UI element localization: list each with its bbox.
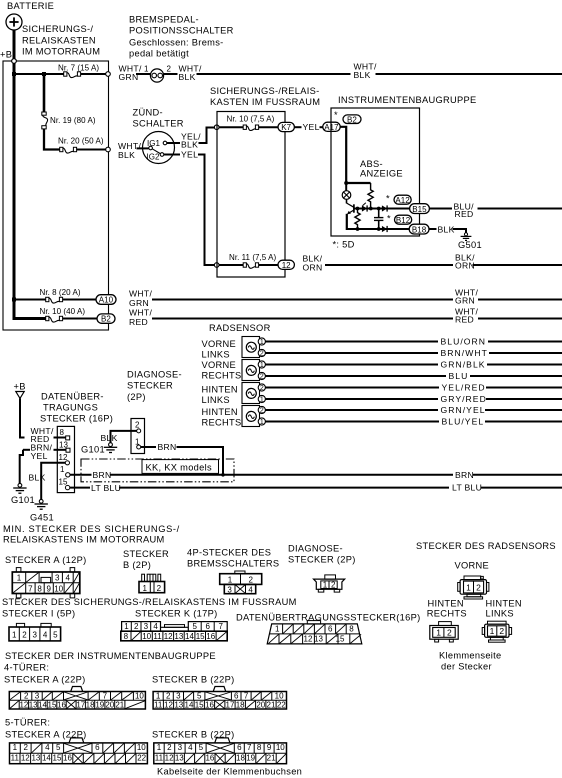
svg-text:RECHTS: RECHTS xyxy=(427,608,467,618)
svg-text:3: 3 xyxy=(55,574,60,583)
svg-text:22: 22 xyxy=(277,701,286,710)
svg-text:BLK: BLK xyxy=(181,140,198,150)
svg-text:BATTERIE: BATTERIE xyxy=(7,1,54,11)
wire LT BLU main run xyxy=(119,487,449,489)
svg-text:STECKER K (17P): STECKER K (17P) xyxy=(135,609,218,619)
svg-text:1: 1 xyxy=(275,625,280,634)
svg-text:10: 10 xyxy=(142,632,151,641)
svg-text:15: 15 xyxy=(336,635,345,644)
svg-text:1: 1 xyxy=(17,574,22,583)
svg-text:BREMSPEDAL-: BREMSPEDAL- xyxy=(129,15,199,25)
wire GRY/RED xyxy=(265,398,438,400)
connector B2 (engine box) xyxy=(97,314,115,324)
label WHT/BLK at fuse 20 xyxy=(118,141,141,160)
connector B 2P pin view xyxy=(139,574,165,593)
wire WHT/RED to page edge xyxy=(478,318,562,320)
svg-text:2: 2 xyxy=(447,628,452,638)
svg-text:G101: G101 xyxy=(81,444,105,454)
connector DLC 16P pin view xyxy=(267,621,362,644)
svg-text:1: 1 xyxy=(124,622,129,631)
svg-text:11: 11 xyxy=(11,754,20,763)
svg-text:pedal betätigt: pedal betätigt xyxy=(129,49,189,59)
svg-text:17: 17 xyxy=(76,701,85,710)
svg-text:STECKER I (5P): STECKER I (5P) xyxy=(2,609,75,619)
connector A10 xyxy=(96,295,116,305)
wire WHT/BLK to right xyxy=(197,73,351,75)
svg-text:VORNE: VORNE xyxy=(455,561,490,571)
svg-text:7: 7 xyxy=(247,743,252,752)
svg-text:1: 1 xyxy=(323,581,328,590)
svg-text:BLU: BLU xyxy=(449,371,469,381)
svg-text:3: 3 xyxy=(227,585,232,594)
pin 2 rear left xyxy=(258,384,265,392)
svg-text:GRN: GRN xyxy=(129,298,149,308)
wire WHT/BLK to page edge xyxy=(376,73,562,75)
svg-text:DIAGNOSE-: DIAGNOSE- xyxy=(127,370,182,380)
svg-text:ANZEIGE: ANZEIGE xyxy=(360,169,403,179)
svg-text:2: 2 xyxy=(260,374,264,381)
svg-text:3: 3 xyxy=(144,622,149,631)
svg-text:4: 4 xyxy=(153,622,158,631)
svg-text:GRY/RED: GRY/RED xyxy=(441,394,487,404)
wire WHT/GRN to page edge xyxy=(478,299,562,301)
svg-text:RED: RED xyxy=(455,314,474,324)
wire emitter to bottom rail xyxy=(346,214,348,230)
svg-text:12: 12 xyxy=(165,754,174,763)
junction battery bus to Nr.7 xyxy=(12,72,16,76)
svg-text:1: 1 xyxy=(228,576,233,585)
svg-text:STECKER: STECKER xyxy=(123,549,169,559)
fuse Nr.8 (20A) xyxy=(46,297,63,303)
connector K7 xyxy=(278,122,294,132)
svg-text:RELAISKASTEN: RELAISKASTEN xyxy=(22,35,96,45)
diagnosis connector 2P outline xyxy=(131,419,145,454)
wire +B bus vertical xyxy=(14,63,46,318)
dashed box KK KX models xyxy=(81,459,234,482)
label BLK/ORN mid xyxy=(455,253,475,271)
svg-text:LINKS: LINKS xyxy=(486,608,514,618)
wire fuse Nr.8 to A10 xyxy=(63,299,97,301)
svg-text:1: 1 xyxy=(13,743,18,752)
wire BLK/ORN to page edge xyxy=(473,264,562,266)
svg-text:12: 12 xyxy=(19,701,28,710)
svg-text:K7: K7 xyxy=(281,123,291,132)
wire diag pin 2 BLK to ground xyxy=(111,431,137,443)
svg-text:12: 12 xyxy=(164,701,173,710)
svg-text:HINTEN: HINTEN xyxy=(428,598,464,608)
svg-text:RECHTS: RECHTS xyxy=(202,371,242,381)
svg-text:BLK: BLK xyxy=(101,433,118,443)
connector cluster B 22P 5-door pin view xyxy=(154,738,287,764)
connector diagnosis 2P pin view xyxy=(314,575,345,592)
resistor parallel to lamp xyxy=(368,183,373,209)
wire BRN main run xyxy=(110,474,453,476)
battery symbol xyxy=(6,14,22,30)
junction Nr.8 branch xyxy=(12,298,16,302)
svg-text:Klemmenseite: Klemmenseite xyxy=(439,651,502,661)
wire brake switch pin 2 out xyxy=(164,73,178,75)
svg-text:21: 21 xyxy=(267,701,276,710)
svg-text:DATENÜBERTRAGUNGSSTECKER(16P): DATENÜBERTRAGUNGSSTECKER(16P) xyxy=(236,613,421,623)
svg-text:4-TÜRER:: 4-TÜRER: xyxy=(4,663,49,673)
label SICHERUNGS-/RELAIS-KASTEN IM FUSSRAUM xyxy=(210,86,320,107)
svg-text:STECKER A (22P): STECKER A (22P) xyxy=(5,730,87,740)
svg-text:Nr. 7 (15 A): Nr. 7 (15 A) xyxy=(58,63,99,72)
connector B15 xyxy=(410,204,430,214)
svg-text:8: 8 xyxy=(257,743,262,752)
svg-text:HINTEN: HINTEN xyxy=(202,385,238,395)
label MIN. STECKER DES SICHERUNGS-/RELAISKASTENS IM MOTORRAUM xyxy=(3,524,180,545)
svg-text:IG2: IG2 xyxy=(147,153,161,162)
svg-text:2: 2 xyxy=(23,743,28,752)
svg-text:2: 2 xyxy=(24,692,29,701)
connector 12 xyxy=(278,260,294,270)
svg-text:RED: RED xyxy=(129,317,148,327)
wire BRN/YEL down to G101 xyxy=(20,450,23,484)
wire fuse Nr.8 xyxy=(14,299,46,301)
wire pin 1 BRN xyxy=(70,474,92,476)
svg-text:SICHERUNGS-/RELAIS-: SICHERUNGS-/RELAIS- xyxy=(210,86,320,96)
svg-text:STECKER A (22P): STECKER A (22P) xyxy=(4,675,86,685)
svg-text:6: 6 xyxy=(234,692,239,701)
svg-text:*: * xyxy=(387,214,391,224)
pin 13 contact xyxy=(66,448,70,452)
connector cluster A 22P 5-door pin view xyxy=(10,738,148,764)
connector wheel sensor HINTEN LINKS pin view xyxy=(482,621,511,642)
wire pin 12 BLK to G451 xyxy=(41,463,65,500)
svg-text:BLK: BLK xyxy=(438,224,455,234)
fuse/relay box footwell outline xyxy=(217,112,285,278)
label BREMSPEDAL-POSITIONSSCHALTER xyxy=(129,15,234,59)
connector cluster B 22P 4-door pin view xyxy=(153,687,286,710)
svg-text:3: 3 xyxy=(178,743,183,752)
svg-text:BREMSSCHALTERS: BREMSSCHALTERS xyxy=(187,559,279,569)
node fussraum entry bottom xyxy=(214,263,219,268)
connector B12 xyxy=(395,215,412,225)
ground G101 right xyxy=(104,443,117,453)
svg-text:14: 14 xyxy=(42,754,51,763)
wire BLU/YEL xyxy=(265,421,439,423)
svg-text:BRN/WHT: BRN/WHT xyxy=(441,348,488,358)
ground G501 xyxy=(461,233,472,241)
svg-text:BRN: BRN xyxy=(455,470,474,480)
svg-text:POSITIONSSCHALTER: POSITIONSSCHALTER xyxy=(129,26,234,36)
wheel sensor front right xyxy=(242,360,260,381)
svg-text:SICHERUNGS-/: SICHERUNGS-/ xyxy=(22,24,93,34)
svg-text:B2: B2 xyxy=(101,315,111,324)
wire GRN/BLK xyxy=(265,364,438,366)
svg-text:RED: RED xyxy=(455,209,474,219)
node box exit WHT/GRN xyxy=(106,72,111,77)
svg-text:6: 6 xyxy=(205,622,210,631)
svg-text:11: 11 xyxy=(153,632,162,641)
label DATENUEBERTRAGUNGS STECKER (16P) xyxy=(40,391,113,423)
data link connector 16P outline xyxy=(57,426,74,492)
label WHT/GRN mid xyxy=(455,288,478,306)
node +B entry circle xyxy=(12,59,17,64)
wire bottom rail xyxy=(347,228,410,230)
label DIAGNOSE-STECKER (2P) xyxy=(127,370,182,402)
svg-text:10: 10 xyxy=(54,585,63,594)
svg-text:14: 14 xyxy=(185,632,194,641)
wire to fuse Nr.11 xyxy=(219,264,244,266)
svg-text:2: 2 xyxy=(166,692,171,701)
connector K 17P pin view xyxy=(121,622,227,641)
label HINTEN RECHTS xyxy=(202,407,242,427)
svg-text:STECKER (16P): STECKER (16P) xyxy=(40,414,113,424)
svg-text:STECKER DER INSTRUMENTENBAUGRU: STECKER DER INSTRUMENTENBAUGRUPPE xyxy=(5,651,216,661)
svg-text:5: 5 xyxy=(199,743,204,752)
label DIAGNOSE-STECKER (2P) bottom xyxy=(288,544,356,565)
svg-text:16: 16 xyxy=(205,701,214,710)
label WHT/RED xyxy=(31,426,54,444)
svg-text:A12: A12 xyxy=(395,196,410,205)
svg-text:DIAGNOSE-: DIAGNOSE- xyxy=(288,544,343,554)
label ZUEND-SCHALTER xyxy=(133,108,184,129)
svg-text:Nr. 11 (7,5 A): Nr. 11 (7,5 A) xyxy=(229,253,277,262)
node fussraum entry top xyxy=(214,125,219,130)
svg-text:BLK: BLK xyxy=(29,472,46,482)
svg-text:Nr. 19 (80 A): Nr. 19 (80 A) xyxy=(50,116,96,125)
svg-text:5: 5 xyxy=(53,630,58,639)
svg-text:YEL: YEL xyxy=(31,451,48,461)
svg-text:9: 9 xyxy=(267,743,272,752)
label HINTEN LINKS xyxy=(202,385,238,405)
label 4P-STECKER DES BREMSSCHALTERS xyxy=(187,548,279,569)
svg-text:6: 6 xyxy=(328,625,333,634)
pin 1 contact xyxy=(66,473,70,477)
svg-text:5-TÜRER:: 5-TÜRER: xyxy=(5,718,50,728)
svg-text:4: 4 xyxy=(43,630,48,639)
svg-text:16: 16 xyxy=(57,701,66,710)
pin 1 contact diag xyxy=(137,445,141,449)
svg-text:10: 10 xyxy=(275,692,284,701)
pin 2 contact diag xyxy=(137,429,141,433)
svg-text:21: 21 xyxy=(267,754,276,763)
diode D1 xyxy=(362,203,367,212)
svg-text:Kabelseite der Klemmenbuchsen: Kabelseite der Klemmenbuchsen xyxy=(157,767,302,777)
svg-text:STECKER B (22P): STECKER B (22P) xyxy=(152,730,235,740)
wire pin 15 LT BLU xyxy=(70,487,90,489)
svg-text:STECKER (2P): STECKER (2P) xyxy=(288,555,356,565)
svg-text:12: 12 xyxy=(304,635,313,644)
label BRN/YEL xyxy=(31,442,53,460)
svg-text:14: 14 xyxy=(185,701,194,710)
brake pedal position switch xyxy=(150,69,163,82)
wire to pin 8 xyxy=(54,437,66,439)
wire battery feed xyxy=(13,30,16,59)
svg-text:HINTEN: HINTEN xyxy=(202,407,238,417)
svg-text:7: 7 xyxy=(28,585,33,594)
svg-text:GRN/BLK: GRN/BLK xyxy=(441,360,486,370)
wire BLU/RED to page edge xyxy=(478,208,562,210)
svg-text:B12: B12 xyxy=(396,216,411,225)
pin 2 front right xyxy=(258,372,265,380)
diode D2 xyxy=(382,205,387,211)
svg-text:22: 22 xyxy=(137,754,146,763)
svg-text:18: 18 xyxy=(86,701,95,710)
fuse Nr.11 (7,5A) xyxy=(243,263,258,269)
svg-text:4: 4 xyxy=(45,743,50,752)
svg-text:11: 11 xyxy=(154,701,163,710)
svg-text:B18: B18 xyxy=(412,225,427,234)
wire BLK/ORN to right xyxy=(325,264,453,266)
svg-text:B2: B2 xyxy=(347,115,357,124)
svg-text:3: 3 xyxy=(33,630,38,639)
fuse Nr.19 (80A) vertical xyxy=(42,112,48,129)
label WHT/GRN at A10 xyxy=(129,288,152,308)
svg-text:WHT/: WHT/ xyxy=(129,288,152,298)
wire diag pin 1 BRN xyxy=(141,446,156,448)
wheel sensor front left xyxy=(242,337,260,358)
wire pin 13 to ground stub xyxy=(23,449,30,451)
svg-text:6: 6 xyxy=(237,743,242,752)
connector cluster A 22P 4-door pin view xyxy=(9,687,145,710)
svg-text:2: 2 xyxy=(260,408,264,415)
svg-text:4: 4 xyxy=(188,743,193,752)
instrument cluster box outline xyxy=(331,108,420,236)
svg-text:12: 12 xyxy=(282,261,291,270)
svg-text:BLK: BLK xyxy=(354,70,371,80)
svg-text:Nr. 20 (50 A): Nr. 20 (50 A) xyxy=(58,137,104,146)
svg-text:STECKER: STECKER xyxy=(127,381,173,391)
svg-text:13: 13 xyxy=(174,632,183,641)
svg-text:GRN: GRN xyxy=(455,296,475,306)
connector brake switch 4P pin view xyxy=(220,571,262,594)
svg-text:IM MOTORRAUM: IM MOTORRAUM xyxy=(22,47,100,57)
svg-text:GRN: GRN xyxy=(119,72,139,82)
svg-text:15: 15 xyxy=(48,701,57,710)
node +B entry circle overlay xyxy=(12,59,17,64)
fuse/relay box engine compartment outline xyxy=(3,61,109,330)
svg-text:BLK: BLK xyxy=(118,150,135,160)
wire lamp/resistor top rail xyxy=(346,182,370,184)
fuse Nr.7 (15A) xyxy=(64,72,81,78)
junction resistor bottom rail xyxy=(356,227,360,231)
svg-text:RADSENSOR: RADSENSOR xyxy=(209,323,271,333)
svg-text:1: 1 xyxy=(156,692,161,701)
svg-text:1: 1 xyxy=(260,362,264,369)
label WHT/BLK mid xyxy=(354,62,377,80)
svg-text:1: 1 xyxy=(490,626,495,636)
pin 2 front left xyxy=(258,349,265,357)
svg-text:BRN: BRN xyxy=(93,470,112,480)
pin 2 rear right xyxy=(258,406,265,414)
wire IG1 out xyxy=(167,142,180,144)
wire diag BRN down to main BRN xyxy=(177,447,224,475)
ignition switch xyxy=(143,132,175,164)
label WHT/BLK xyxy=(179,63,202,82)
ground G451 xyxy=(35,499,48,509)
transistor Q1 xyxy=(347,203,354,214)
svg-text:LT BLU: LT BLU xyxy=(91,483,121,493)
svg-text:13: 13 xyxy=(175,754,184,763)
svg-text:7: 7 xyxy=(103,692,108,701)
pin 15 contact xyxy=(65,485,69,489)
svg-text:STECKER A (12P): STECKER A (12P) xyxy=(5,555,87,565)
svg-text:2: 2 xyxy=(499,626,504,636)
connector wheel sensor VORNE pin view xyxy=(458,576,489,599)
label VORNE RECHTS xyxy=(202,360,242,380)
svg-text:der Stecker: der Stecker xyxy=(441,662,492,672)
wire fuse Nr.10(40) to B2 xyxy=(63,318,98,320)
svg-text:21: 21 xyxy=(115,701,124,710)
wire BLU/ORN xyxy=(265,341,438,343)
svg-text:*: 5D: *: 5D xyxy=(333,239,355,249)
svg-text:12: 12 xyxy=(164,632,173,641)
label HINTEN LINKS xyxy=(486,598,522,618)
svg-text:G451: G451 xyxy=(30,512,54,522)
label ABS-ANZEIGE xyxy=(360,159,403,179)
svg-text:INSTRUMENTENBAUGRUPPE: INSTRUMENTENBAUGRUPPE xyxy=(338,95,477,105)
svg-text:2: 2 xyxy=(476,583,481,593)
svg-text:13: 13 xyxy=(59,440,68,449)
svg-text:Nr. 8 (20 A): Nr. 8 (20 A) xyxy=(40,288,81,297)
svg-text:15: 15 xyxy=(53,754,62,763)
power symbol +B triangle xyxy=(16,392,24,399)
wire WHT/GRN right xyxy=(152,299,453,301)
svg-text:7: 7 xyxy=(244,692,249,701)
svg-text:1: 1 xyxy=(260,419,264,426)
svg-text:BLU/YEL: BLU/YEL xyxy=(442,417,485,427)
wire fuse Nr.10 to K7 xyxy=(259,126,279,128)
svg-text:14: 14 xyxy=(38,701,47,710)
svg-text:4: 4 xyxy=(248,585,253,594)
svg-text:STECKER DES SICHERUNGS-/RELAIS: STECKER DES SICHERUNGS-/RELAISKASTENS IM… xyxy=(2,597,297,607)
connector I 5P pin view xyxy=(9,623,61,641)
svg-text:10: 10 xyxy=(137,743,146,752)
svg-text:G501: G501 xyxy=(458,240,482,250)
pin 12 contact xyxy=(65,461,69,465)
wire YEL to fussraum box bottom xyxy=(198,155,215,266)
wire BRN/WHT xyxy=(265,352,438,354)
label YEL/BLK xyxy=(181,131,201,149)
svg-text:B15: B15 xyxy=(412,205,427,214)
svg-text:DATENÜBER-: DATENÜBER- xyxy=(41,391,104,401)
svg-text:*: * xyxy=(386,194,390,204)
svg-text:2: 2 xyxy=(249,576,254,585)
wire BLU xyxy=(265,375,446,377)
junction resistor top rail xyxy=(369,207,373,211)
svg-text:5: 5 xyxy=(197,692,202,701)
junction Nr.19 branch xyxy=(42,72,46,76)
wheel sensor rear left xyxy=(242,383,260,404)
wire into ignition switch xyxy=(137,147,149,149)
wire to fuse Nr.10 xyxy=(219,126,244,128)
svg-text:(2P): (2P) xyxy=(127,392,146,402)
svg-text:20: 20 xyxy=(256,701,265,710)
connector A17 xyxy=(323,122,340,132)
svg-text:RELAISKASTENS IM MOTORRAUM: RELAISKASTENS IM MOTORRAUM xyxy=(3,535,165,545)
svg-text:SCHALTER: SCHALTER xyxy=(133,119,184,129)
label WHT/RED at B2 xyxy=(129,307,152,327)
wire base to top rail xyxy=(354,208,410,210)
svg-text:16: 16 xyxy=(205,754,214,763)
svg-text:2: 2 xyxy=(331,581,336,590)
connector A 12P pin view xyxy=(12,568,80,598)
svg-text:LINKS: LINKS xyxy=(202,395,230,405)
pin 1 front left xyxy=(258,338,265,346)
svg-text:2: 2 xyxy=(260,385,264,392)
svg-text:15: 15 xyxy=(195,701,204,710)
label VORNE LINKS xyxy=(202,339,237,359)
svg-text:1: 1 xyxy=(260,397,264,404)
wire BRN to page edge xyxy=(473,474,562,476)
wire B15 BLU/RED right xyxy=(430,208,452,210)
svg-text:ABS-: ABS- xyxy=(360,159,383,169)
diode D3 xyxy=(382,226,387,232)
svg-text:15: 15 xyxy=(196,632,205,641)
